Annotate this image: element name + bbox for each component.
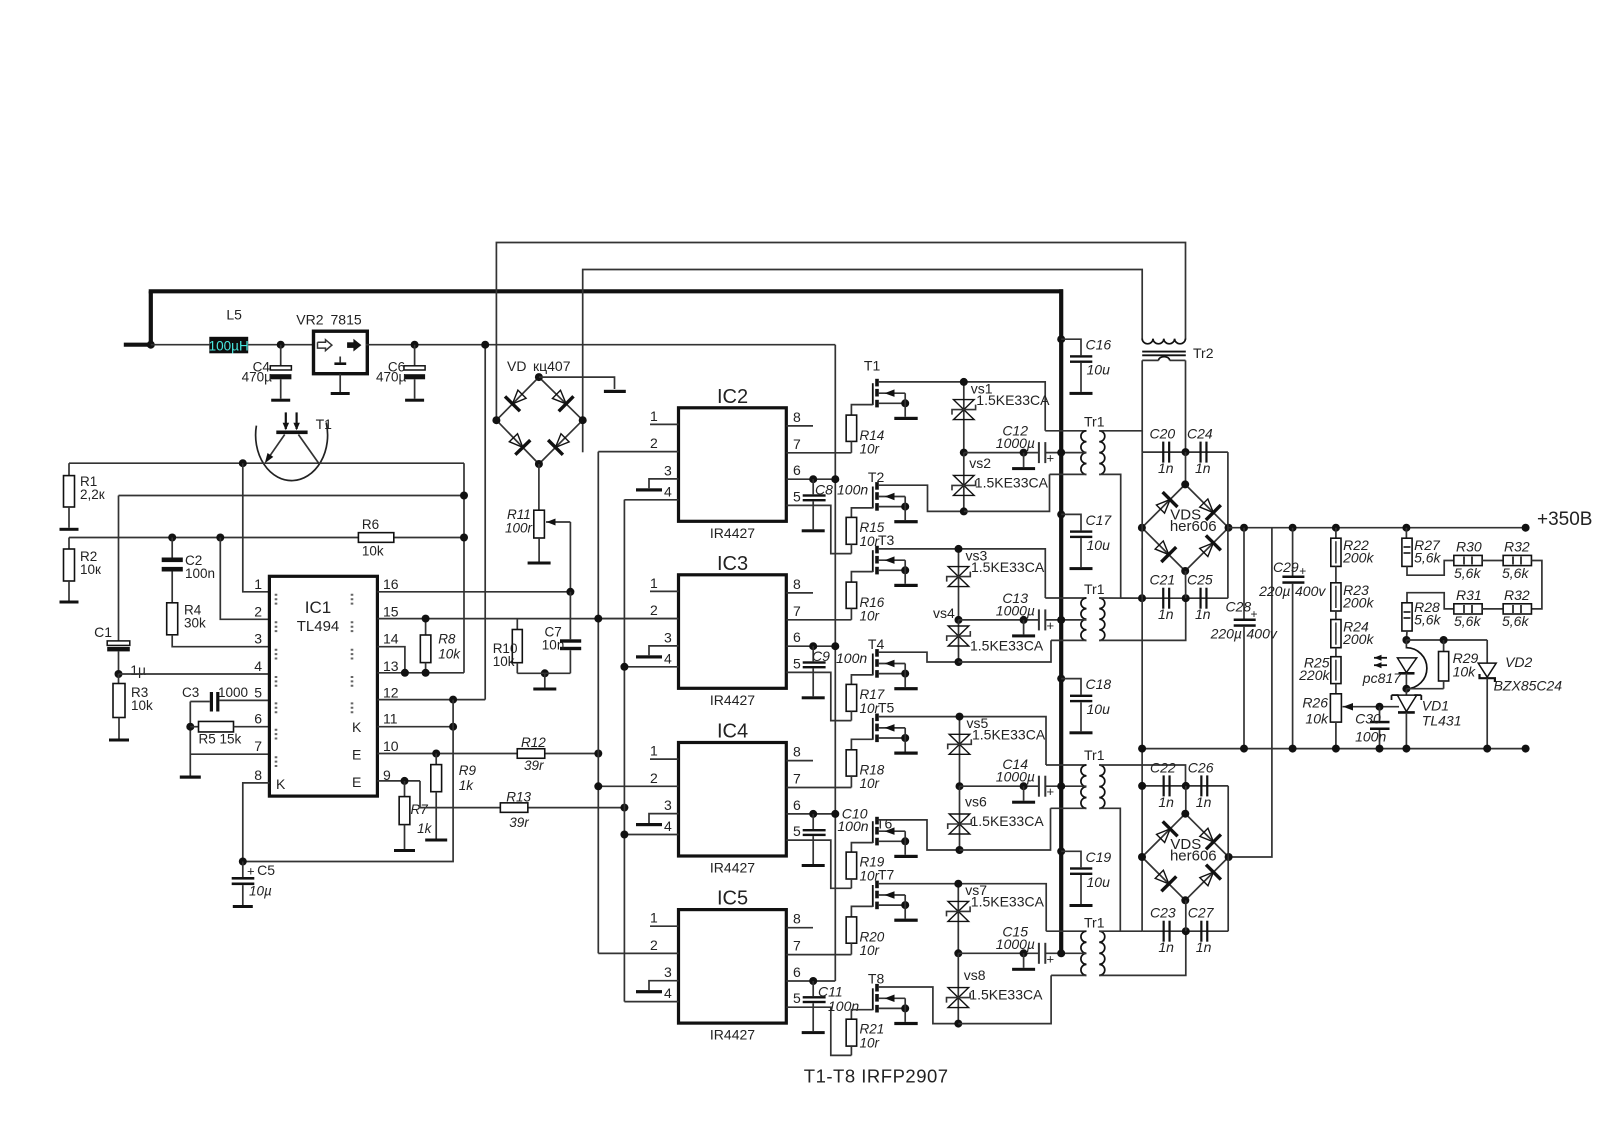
svg-text:1: 1 <box>254 576 262 592</box>
svg-text:vs4: vs4 <box>933 605 955 621</box>
wire top line 2 <box>583 270 1142 420</box>
svg-text:C28: C28 <box>1226 599 1252 615</box>
svg-text:10к: 10к <box>80 562 101 577</box>
IC3 pin 3 wire <box>649 629 679 655</box>
svg-text:4: 4 <box>664 650 672 666</box>
svg-text:+: + <box>247 864 255 879</box>
resistor R6 10k <box>358 517 393 559</box>
svg-text:1.5KE33CA: 1.5KE33CA <box>975 474 1049 490</box>
IC2 pin 4 wire <box>624 483 678 500</box>
capacitor C13 1000µ <box>996 590 1054 638</box>
zener diode VD2 BZX85C24 <box>1478 640 1562 753</box>
svg-text:6: 6 <box>793 629 801 645</box>
svg-text:C26: C26 <box>1188 759 1214 775</box>
svg-text:10µ: 10µ <box>249 884 272 899</box>
ground R11 <box>528 538 551 565</box>
TVS vs1 1.5KE33CA <box>952 380 1050 419</box>
svg-text:5: 5 <box>793 823 801 839</box>
node junction at L5 input <box>147 341 155 349</box>
svg-text:1.5KE33CA: 1.5KE33CA <box>972 727 1046 743</box>
svg-text:R32: R32 <box>1504 587 1530 603</box>
resistor R3 10k <box>113 674 153 718</box>
svg-text:4: 4 <box>664 985 672 1001</box>
svg-text:her606: her606 <box>1170 848 1217 865</box>
IC chip IC2 IR4427 <box>679 386 787 541</box>
resistor R13 39r <box>500 790 531 831</box>
wire bridge right node stub down <box>582 419 584 452</box>
svg-text:R5 15k: R5 15k <box>199 732 242 747</box>
capacitor C3 1000 <box>182 685 269 712</box>
wire pin7 to ground riser <box>190 753 269 755</box>
TVS vs6 1.5KE33CA <box>948 794 1045 835</box>
svg-text:1000µ: 1000µ <box>996 936 1035 952</box>
svg-text:3: 3 <box>664 797 672 813</box>
wire bridge1 top riser <box>1185 452 1187 484</box>
svg-text:1000µ: 1000µ <box>996 435 1035 451</box>
wire pin10 rail with R12 <box>377 753 598 755</box>
wire bridge2 link to output rail <box>1228 528 1272 857</box>
wire R10 C7 ground link <box>517 672 570 674</box>
svg-text:BZX85C24: BZX85C24 <box>1494 678 1563 694</box>
wire pin11 rail <box>377 723 457 731</box>
svg-text:2: 2 <box>650 435 658 451</box>
svg-text:470µ: 470µ <box>242 370 273 385</box>
svg-text:15: 15 <box>383 603 399 619</box>
TVS vs2 1.5KE33CA <box>952 455 1049 496</box>
ground R9 <box>425 792 447 842</box>
wire pin13 rail <box>377 672 464 674</box>
svg-text:2: 2 <box>254 603 262 619</box>
svg-text:vs2: vs2 <box>969 455 991 471</box>
capacitor C9 100n <box>802 646 868 699</box>
wire C22 C26 row <box>1138 782 1228 790</box>
capacitor C10 100n <box>802 805 869 867</box>
wire T1 gate to R14 <box>851 405 872 416</box>
svg-text:Tr1: Tr1 <box>1084 414 1105 430</box>
svg-text:Tr1: Tr1 <box>1084 914 1105 930</box>
svg-text:+: + <box>1047 451 1055 466</box>
svg-text:10r: 10r <box>860 608 880 623</box>
svg-text:T6: T6 <box>876 816 893 832</box>
wire R28 to pc817 node <box>1402 631 1410 644</box>
node R12 to bus1 <box>594 750 602 758</box>
IC4 pin 8 stub <box>786 744 813 761</box>
IC4 pin 7 wire <box>786 771 851 788</box>
svg-text:+: + <box>1047 784 1055 799</box>
wire pin4 rail <box>119 673 270 675</box>
wire T1 drain rail <box>879 382 1045 431</box>
svg-text:1n: 1n <box>1196 794 1212 810</box>
capacitor C21 1n <box>1150 572 1176 623</box>
resistor R31 5,6k <box>1454 587 1482 629</box>
resistor R21 10r <box>846 1019 884 1055</box>
svg-text:4: 4 <box>254 658 262 674</box>
svg-text:10k: 10k <box>131 698 153 713</box>
TVS vs5 1.5KE33CA <box>948 715 1046 754</box>
svg-text:1: 1 <box>650 743 658 759</box>
wire output rail +350V <box>1229 527 1526 529</box>
svg-text:7: 7 <box>793 603 801 619</box>
svg-text:4: 4 <box>664 818 672 834</box>
transistor T7 IRFP2907 upper <box>873 867 918 922</box>
IC5 pin 3 wire <box>649 964 679 990</box>
svg-text:IR4427: IR4427 <box>710 1027 755 1043</box>
resistor R7 1k <box>399 781 432 836</box>
TVS vs8 1.5KE33CA <box>947 967 1044 1008</box>
resistor R8 10k <box>420 615 461 677</box>
svg-text:C23: C23 <box>1150 905 1176 921</box>
IC2 pin 1 stub <box>650 408 679 425</box>
wire T5 gate to R18 <box>851 739 872 750</box>
svg-text:C5: C5 <box>257 862 275 878</box>
resistor R25 220k <box>1298 655 1341 684</box>
svg-text:6: 6 <box>793 462 801 478</box>
node C4 tap <box>277 341 285 349</box>
svg-text:C19: C19 <box>1086 849 1112 865</box>
node pin14 join <box>401 669 409 677</box>
wire bus INA x598 <box>597 452 599 954</box>
wire T8 gate to R21 <box>851 1010 872 1020</box>
wire C20 C24 row <box>1142 451 1228 453</box>
ground C5 <box>233 885 253 908</box>
svg-text:T5: T5 <box>878 700 895 716</box>
voltage regulator VR2 7815 <box>296 312 367 374</box>
wire bridge2 bottom riser <box>1185 900 1187 931</box>
TVS vs4 1.5KE33CA <box>933 605 1044 654</box>
IC chip IC5 IR4427 <box>679 888 787 1043</box>
resistor R16 10r <box>846 582 885 623</box>
shunt regulator VD1 TL431 <box>1392 689 1462 753</box>
capacitor C26 1n <box>1188 759 1214 810</box>
svg-text:IC4: IC4 <box>717 721 748 743</box>
svg-text:100n: 100n <box>836 650 867 666</box>
svg-text:10r: 10r <box>860 943 880 958</box>
svg-text:1.5KE33CA: 1.5KE33CA <box>969 987 1043 1003</box>
svg-text:R8: R8 <box>438 632 456 647</box>
wire T2 drain to phase rail <box>879 485 964 511</box>
svg-text:C9: C9 <box>812 648 830 664</box>
capacitor C5 10µ <box>232 862 276 899</box>
svg-text:1.5KE33CA: 1.5KE33CA <box>971 813 1045 829</box>
svg-text:5,6k: 5,6k <box>1454 565 1481 581</box>
svg-text:39r: 39r <box>524 758 544 773</box>
transformer Tr1 primary #4 <box>1046 914 1104 975</box>
node R5 left junction <box>186 723 194 731</box>
ground R7 <box>394 825 415 852</box>
capacitor C14 1000µ <box>996 756 1054 804</box>
wire T7 gate to R20 <box>851 906 872 917</box>
wire R25 R26 link <box>1335 684 1337 694</box>
svg-text:Tr1: Tr1 <box>1084 581 1105 597</box>
svg-text:220k: 220k <box>1298 667 1330 683</box>
svg-text:12: 12 <box>383 684 399 700</box>
wire vertical bus x464 <box>460 463 468 673</box>
wire vs2 column <box>960 453 968 516</box>
transformer Tr1 secondary #1 <box>1099 431 1105 475</box>
svg-text:11: 11 <box>383 711 398 727</box>
wire pin15 rail to IC3 pin2 <box>377 618 678 620</box>
wire thick top horizontal bus <box>149 289 1063 293</box>
svg-text:10r: 10r <box>860 1036 880 1051</box>
svg-text:1n: 1n <box>1158 794 1174 810</box>
wire vs8 column <box>954 953 962 1027</box>
IC4 pin 1 stub <box>650 743 679 760</box>
wire R30 R32 link <box>1482 560 1504 562</box>
wire R23 R24 link <box>1335 611 1337 620</box>
svg-text:3: 3 <box>664 629 672 645</box>
IC5 pin 7 wire <box>786 938 851 955</box>
capacitor C12 1000µ <box>996 423 1054 471</box>
wire thick riser to top bus <box>149 291 153 346</box>
svg-text:1.5KE33CA: 1.5KE33CA <box>971 894 1045 910</box>
svg-text:7815: 7815 <box>331 312 362 328</box>
node row2 mid <box>1182 594 1190 602</box>
svg-text:10r: 10r <box>860 441 880 456</box>
resistor R30 5,6k <box>1454 539 1482 582</box>
svg-text:10u: 10u <box>1087 701 1111 717</box>
ground IC3 pin3 <box>636 655 662 658</box>
svg-text:10k: 10k <box>1453 664 1477 680</box>
svg-text:her606: her606 <box>1170 518 1217 535</box>
svg-text:pc817: pc817 <box>1362 670 1402 686</box>
IC2 pin 6 wire VCC <box>786 462 839 483</box>
svg-text:C18: C18 <box>1086 676 1112 692</box>
IC3 pin 7 wire <box>786 603 851 620</box>
svg-text:1n: 1n <box>1196 939 1212 955</box>
capacitor C22 1n <box>1150 759 1176 810</box>
svg-text:T7: T7 <box>878 867 895 883</box>
IC2 pin 7 wire <box>786 436 851 453</box>
capacitor C28 220µ 400v <box>1210 524 1278 753</box>
IC3 pin 6 wire VCC <box>786 629 839 650</box>
wire vs1 column <box>960 378 968 457</box>
wire Tr2 secondary right down to bridge row <box>1185 360 1187 452</box>
wire bridge1 right vertical <box>1227 452 1229 598</box>
ground IC5 pin3 <box>636 990 662 993</box>
transformer Tr1 secondary #2 <box>1099 598 1105 640</box>
transistor T8 IRFP2907 lower <box>868 971 918 1026</box>
IC2 pin 8 stub <box>786 409 813 426</box>
svg-text:14: 14 <box>383 631 399 647</box>
svg-text:T1: T1 <box>316 416 333 432</box>
svg-text:IR4427: IR4427 <box>710 525 755 541</box>
svg-text:кц407: кц407 <box>533 358 571 374</box>
svg-text:39r: 39r <box>509 815 529 830</box>
node C2 tap <box>168 534 176 542</box>
capacitor C20 1n <box>1150 426 1176 476</box>
svg-text:1000: 1000 <box>218 685 248 700</box>
capacitor C15 1000µ <box>996 923 1054 971</box>
potentiometer R11 100r <box>505 507 570 592</box>
wire thick vertical supply bus <box>1059 289 1063 953</box>
svg-text:5,6k: 5,6k <box>1414 550 1441 566</box>
svg-text:2: 2 <box>650 770 658 786</box>
svg-text:C30: C30 <box>1355 711 1381 727</box>
resistor chain R22 200k <box>1331 524 1375 567</box>
label +350V <box>1537 509 1592 530</box>
transistor T1 IRFP2907 upper <box>864 358 918 421</box>
svg-text:R13: R13 <box>506 790 531 805</box>
svg-text:C3: C3 <box>182 685 199 700</box>
svg-text:1.5KE33CA: 1.5KE33CA <box>976 392 1050 408</box>
wire bus VCC15 x835 <box>834 345 836 981</box>
diode bridge VDS her606 #2 <box>1138 810 1233 905</box>
svg-text:C25: C25 <box>1187 572 1213 588</box>
wire T8 drain to phase rail <box>879 987 959 1024</box>
svg-text:1.5KE33CA: 1.5KE33CA <box>971 559 1045 575</box>
wire Tr1-3 secondary bottom chain link <box>1099 808 1120 931</box>
node pins12 bus join <box>449 696 457 704</box>
capacitor C6 470µ <box>376 345 425 402</box>
transistor T3 IRFP2907 upper <box>873 532 918 587</box>
wire mid rail to C12 <box>964 452 1061 454</box>
svg-text:IC3: IC3 <box>717 553 748 575</box>
wire pin12 rail VCC <box>377 699 485 701</box>
svg-text:220µ: 220µ <box>1258 583 1290 599</box>
node output rail end <box>1522 524 1530 532</box>
wire T4 drain to phase rail <box>879 652 959 662</box>
svg-text:1k: 1k <box>417 821 433 836</box>
svg-text:5: 5 <box>793 990 801 1006</box>
wire T4 gate to R17 <box>851 675 872 685</box>
svg-text:IC1: IC1 <box>305 598 331 617</box>
svg-text:TL431: TL431 <box>1422 713 1462 729</box>
resistor R20 10r <box>846 917 885 958</box>
capacitor C23 1n <box>1150 905 1176 956</box>
svg-text:+: + <box>1299 564 1306 578</box>
wire R22 R23 link <box>1335 566 1337 582</box>
ground VD bridge top <box>604 390 626 393</box>
svg-text:1: 1 <box>650 408 658 424</box>
svg-text:100n: 100n <box>828 998 859 1014</box>
wire R4 to IC1 pin3 <box>172 635 269 647</box>
svg-text:R12: R12 <box>521 735 546 750</box>
svg-text:IC5: IC5 <box>717 888 748 910</box>
IC5 pin 6 wire VCC <box>786 964 835 985</box>
capacitor C7 10n <box>542 592 581 674</box>
wire bridge top node to ground <box>539 377 615 389</box>
svg-text:1000µ: 1000µ <box>996 769 1035 785</box>
wire C21 C25 row <box>1121 594 1228 602</box>
IC3 pin 8 stub <box>786 576 813 593</box>
TVS vs3 1.5KE33CA <box>947 547 1045 586</box>
svg-text:3: 3 <box>254 631 262 647</box>
capacitor C30 100n <box>1355 703 1389 753</box>
wire input to L5 <box>151 344 210 346</box>
wire vs6 column <box>956 786 964 854</box>
svg-text:C24: C24 <box>1187 426 1213 442</box>
svg-text:T8: T8 <box>868 971 885 987</box>
svg-text:+: + <box>1251 607 1258 621</box>
resistor R9 1k <box>431 754 477 794</box>
ground R1 <box>60 507 79 531</box>
capacitor C4 470µ <box>242 345 292 402</box>
svg-text:Tr2: Tr2 <box>1193 345 1214 361</box>
svg-text:K: K <box>276 776 286 792</box>
svg-text:10u: 10u <box>1087 874 1111 890</box>
transformer Tr1 primary #3 <box>1046 747 1105 808</box>
node C6 tap <box>411 341 419 349</box>
TVS vs7 1.5KE33CA <box>947 882 1045 921</box>
node R9 top junction <box>432 750 440 758</box>
wire Tr1-3 secondary top link <box>1099 765 1185 786</box>
svg-text:R9: R9 <box>459 763 477 778</box>
wire R27 to R30 <box>1407 561 1454 576</box>
svg-text:5,6k: 5,6k <box>1414 612 1441 628</box>
svg-text:100µH: 100µH <box>209 338 249 353</box>
node row4 mid <box>1182 927 1190 935</box>
svg-text:Tr1: Tr1 <box>1084 747 1105 763</box>
ground C3 R5 pin7 <box>180 776 201 779</box>
node C7 riser on pin16 <box>566 588 574 596</box>
svg-text:10k: 10k <box>1305 711 1329 727</box>
wire T6 gate to R19 <box>851 843 872 853</box>
svg-text:100n: 100n <box>837 818 868 834</box>
svg-text:L5: L5 <box>226 307 242 323</box>
transformer Tr1 secondary #3 <box>1099 765 1105 808</box>
IC5 pin 2 wire <box>598 937 678 954</box>
svg-text:+: + <box>1047 618 1055 633</box>
capacitor C25 1n <box>1187 572 1213 623</box>
wire pin14 jog to pin13 <box>377 647 405 673</box>
optocoupler pc817 <box>1362 640 1427 693</box>
svg-text:6: 6 <box>793 964 801 980</box>
wire vs7 column <box>954 880 962 958</box>
svg-text:13: 13 <box>383 658 399 674</box>
resistor R14 10r <box>846 415 884 456</box>
ground R3 <box>109 718 129 742</box>
wire Tr1-1 secondary top to Tr2 <box>1099 360 1142 452</box>
capacitor C24 1n <box>1187 426 1213 476</box>
current transformer T1 toroid <box>256 412 333 480</box>
svg-text:VR2: VR2 <box>296 312 323 328</box>
svg-text:C17: C17 <box>1086 512 1113 528</box>
wire Tr1-2 secondary top rail <box>1099 597 1142 599</box>
svg-text:2: 2 <box>650 937 658 953</box>
node C5 top junction <box>239 858 247 866</box>
resistor R29 10k <box>1406 640 1478 689</box>
svg-text:VD1: VD1 <box>1422 698 1449 714</box>
svg-text:7: 7 <box>254 738 262 754</box>
IC4 pin 3 wire <box>649 797 679 823</box>
wire bridge1 bottom riser <box>1185 571 1187 598</box>
resistor R18 10r <box>846 750 885 791</box>
resistor R4 30k <box>167 603 206 635</box>
svg-text:C20: C20 <box>1150 426 1176 442</box>
inductor L5 100µH <box>209 307 249 354</box>
wire vs5 column <box>956 713 964 791</box>
svg-text:2: 2 <box>650 602 658 618</box>
wire bridge2 right vertical <box>1227 786 1229 931</box>
svg-text:C8: C8 <box>815 482 833 498</box>
svg-text:100n: 100n <box>185 566 215 581</box>
svg-text:8: 8 <box>254 767 262 783</box>
node row1 mid <box>1182 448 1190 456</box>
resistor R2 10к <box>64 538 102 582</box>
capacitor C19 10u <box>1057 847 1111 907</box>
wire bridge1 left vertical <box>1141 452 1143 931</box>
IC5 pin 4 wire <box>624 985 678 1002</box>
svg-text:+: + <box>1047 951 1055 966</box>
svg-text:5: 5 <box>793 488 801 504</box>
svg-text:4: 4 <box>664 483 672 499</box>
svg-text:VD: VD <box>507 358 526 374</box>
transformer Tr1 primary #2 <box>1045 581 1104 641</box>
IC3 pin 5 wire <box>786 655 851 720</box>
wire Tr1-1 secondary bottom chain link <box>1099 474 1121 598</box>
svg-text:200k: 200k <box>1342 550 1374 566</box>
IC4 pin 5 wire <box>786 823 851 888</box>
